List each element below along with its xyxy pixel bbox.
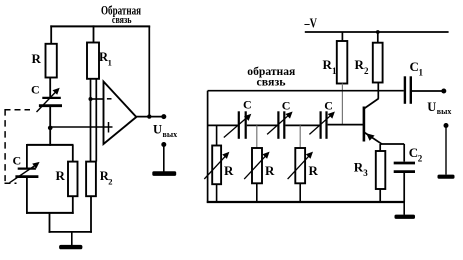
wire: R1 lead vertical (left) — [90, 79, 92, 162]
label R2 (right circuit) — [355, 57, 370, 76]
capacitor C variable (parallel arm) top plate — [18, 168, 36, 170]
capacitor C variable (parallel arm) bottom plate — [15, 175, 38, 178]
svg-text:R: R — [56, 168, 66, 183]
wire: tank left branch upper — [26, 144, 28, 168]
svg-text:2: 2 — [418, 154, 423, 164]
capacitor C1 left plate — [404, 76, 406, 104]
variable resistor R (1) arrow — [204, 152, 229, 179]
svg-text:C: C — [410, 59, 419, 74]
label Uвых (left) — [153, 123, 177, 140]
wire: base chain segment 4 to transistor base — [328, 124, 363, 126]
capacitor C chain-1 left plate — [238, 111, 240, 139]
variable resistor R (1) — [212, 146, 221, 185]
capacitor C2 bottom plate — [394, 170, 415, 173]
svg-text:1: 1 — [419, 68, 424, 78]
wire: var resistor 2 top lead — [256, 125, 258, 148]
capacitor C1 right plate — [410, 76, 412, 104]
wire: feedback left vertical — [207, 91, 209, 203]
wire: tank bottom rail — [26, 212, 74, 214]
op-amp minus sign — [107, 98, 112, 100]
svg-text:R: R — [32, 51, 42, 66]
svg-text:3: 3 — [363, 168, 368, 178]
label R3 — [354, 160, 369, 179]
wire: lower terminal stub — [163, 145, 165, 172]
transistor Q1 emitter with arrow — [365, 133, 383, 145]
wire: ground stub — [71, 232, 73, 245]
wire: inverting input horizontal — [91, 98, 104, 100]
capacitor C chain-3 left plate — [320, 111, 322, 139]
capacitor C chain-3 right plate — [325, 111, 327, 139]
svg-text:связь: связь — [112, 15, 132, 26]
wire: base chain segment 2 — [247, 124, 277, 126]
ground symbol (left circuit) — [59, 245, 82, 249]
svg-text:C: C — [243, 98, 252, 112]
wire: bottom rail (right circuit) — [207, 201, 404, 203]
node: output terminal dot — [161, 114, 166, 119]
capacitor C variable (series arm) bottom plate — [39, 104, 62, 107]
wire: emitter node horizontal — [380, 143, 404, 145]
wire: var resistor 3 bottom lead — [299, 183, 301, 202]
wire: tank left branch lower — [26, 177, 28, 214]
svg-text:R: R — [355, 57, 365, 72]
node: R2 top junction dot — [376, 30, 380, 34]
wire: feedback vertical from top rail to output — [148, 26, 150, 116]
wire: + input horizontal — [50, 126, 112, 128]
wire: tank top rail — [27, 144, 74, 146]
wire: R2 lead vertical (right) — [95, 79, 97, 162]
svg-text:R: R — [224, 163, 234, 178]
wire: + node down to tank top — [49, 128, 51, 146]
label Uвых (right) — [427, 100, 451, 116]
label C1 — [410, 59, 424, 78]
transistor Q1 collector lead — [364, 91, 378, 109]
label C2 — [409, 145, 423, 164]
wire: R1 top lead — [93, 25, 95, 42]
node: feedback junction dot — [147, 114, 151, 118]
wire: tank R top lead — [72, 145, 74, 162]
wire: op-amp output — [136, 116, 164, 118]
wire: R1 bottom lead to base node — [341, 84, 343, 126]
svg-text:U: U — [427, 100, 436, 114]
wire: top feedback rail — [50, 25, 150, 27]
wire: base chain segment 1 — [208, 124, 238, 126]
capacitor C variable (parallel arm) arrow — [10, 162, 40, 183]
wire: lower output stub (right) — [445, 126, 447, 175]
capacitor C chain-2 left plate — [277, 111, 279, 139]
resistor R2 (collector load) — [373, 43, 383, 83]
wire: R2 bottom lead — [377, 83, 379, 92]
label "обратная связь" (right) — [247, 64, 295, 89]
svg-text:2: 2 — [108, 177, 112, 187]
resistor R3 — [376, 151, 386, 189]
variable resistor R (3) — [295, 148, 305, 183]
capacitor C chain-1 right plate — [245, 111, 247, 139]
wire: var resistor 3 top lead — [299, 125, 301, 148]
wire: tank R bottom lead — [72, 196, 74, 214]
wire: var resistor 2 bottom lead — [256, 183, 258, 202]
wire: feedback / collector output horizontal — [208, 90, 404, 92]
resistor R (parallel arm) — [68, 162, 78, 197]
svg-text:R: R — [265, 163, 275, 178]
transistor Q1 base bar — [363, 107, 366, 142]
label R1 (right circuit) — [323, 57, 338, 76]
wire: ground stub (right circuit) — [403, 202, 405, 215]
svg-text:1: 1 — [108, 58, 112, 68]
capacitor C chain-2 arrow — [267, 112, 293, 135]
svg-text:вых: вых — [437, 107, 452, 116]
node: output terminal dot (right) — [441, 89, 446, 94]
wire: C2 top stub — [403, 144, 405, 162]
resistor R (series arm) — [46, 44, 57, 78]
op-amp U1 triangle — [104, 82, 137, 145]
svg-text:C: C — [409, 145, 418, 160]
svg-text:R: R — [323, 57, 333, 72]
svg-text:R: R — [309, 163, 319, 178]
node: lower output terminal dot — [161, 142, 166, 147]
node: inverting input junction dot — [89, 97, 93, 101]
wire: R1 top lead — [341, 32, 343, 41]
svg-text:C: C — [13, 154, 22, 168]
wire: var resistor 1 bottom lead — [216, 184, 218, 202]
variable resistor R (3) arrow — [288, 152, 313, 180]
svg-text:R: R — [354, 160, 364, 175]
capacitor C variable (series arm) top plate — [42, 97, 61, 99]
resistor R1 — [87, 43, 99, 79]
wire: R3 top lead — [379, 144, 381, 151]
variable resistor R (2) arrow — [244, 152, 269, 180]
svg-text:U: U — [153, 123, 162, 137]
svg-text:вых: вых — [163, 130, 178, 139]
capacitor C2 top plate — [394, 162, 415, 165]
label R1 — [99, 50, 112, 68]
svg-text:связь: связь — [257, 75, 287, 89]
capacitor C variable (series arm) arrow — [37, 88, 60, 112]
wire: -V power rail — [305, 31, 449, 33]
wire: top rail left drop to R — [50, 25, 52, 44]
dashed gang link bottom — [5, 182, 17, 184]
ground bar (output reference, left) — [152, 171, 176, 176]
svg-text:–V: –V — [304, 17, 317, 32]
label R2 — [100, 169, 113, 187]
dashed gang link top — [5, 109, 31, 111]
wire: C2 bottom stub — [403, 172, 405, 202]
wire: R2 bottom lead — [90, 196, 92, 233]
svg-text:1: 1 — [332, 66, 337, 76]
ground bar (output reference, right) — [438, 175, 455, 179]
resistor R1 (bias) — [337, 41, 348, 84]
wire: var resistor 1 top lead — [216, 125, 218, 145]
wire: base chain segment 3 — [285, 124, 319, 126]
capacitor C chain-3 arrow — [309, 112, 335, 135]
capacitor C chain-1 arrow — [224, 114, 252, 138]
svg-text:C: C — [282, 99, 291, 113]
wire: tank bottom drop — [49, 213, 51, 233]
op-amp plus sign — [104, 122, 113, 133]
node: + input junction dot — [48, 126, 53, 131]
wire: C1 to output — [412, 90, 444, 92]
wire: R to C1var — [49, 78, 51, 98]
capacitor C chain-2 right plate — [283, 111, 285, 139]
dashed gang link vertical — [4, 109, 6, 181]
wire: R3 bottom lead — [379, 189, 381, 202]
svg-text:2: 2 — [364, 66, 369, 76]
node: lower output terminal dot (right) — [444, 123, 449, 128]
wire: ground rail — [49, 231, 92, 233]
wire: R2 top lead — [377, 32, 379, 43]
svg-text:C: C — [324, 99, 333, 113]
resistor R2 — [86, 162, 96, 197]
label "Обратная связь" (feedback) — [101, 4, 141, 27]
svg-text:C: C — [31, 83, 40, 97]
ground symbol (right circuit) — [395, 215, 416, 219]
variable resistor R (2) — [252, 148, 262, 183]
wire: C1var to + node — [49, 106, 51, 128]
